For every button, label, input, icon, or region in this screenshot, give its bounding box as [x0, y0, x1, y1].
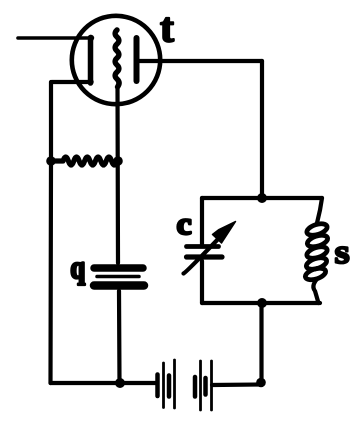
wire: tank right branch upper — [317, 198, 322, 223]
label s — [336, 247, 349, 263]
wire: grid lead down to capacitor q — [115, 87, 120, 263]
wire: tank left branch lower — [200, 261, 204, 303]
battery B2 plate short 2 — [203, 378, 208, 395]
wire: bottom rail right section — [212, 382, 259, 387]
wire: filament bottom lead — [52, 80, 91, 84]
wire: capacitor q bottom lead to ground rail — [117, 291, 122, 383]
wire: tank bottom — [202, 301, 320, 305]
variable capacitor arrow shaft — [184, 236, 222, 274]
label t — [161, 18, 174, 42]
node: tank bottom junction — [257, 298, 267, 308]
capacitor q top plate — [94, 264, 143, 272]
battery B1 plate short 1 — [155, 375, 160, 397]
node: filament bottom junction — [87, 79, 93, 85]
label q — [72, 263, 85, 285]
wire: tank left branch upper — [200, 198, 204, 244]
battery B2 plate short 1 — [193, 377, 198, 397]
node: filament top junction — [88, 35, 94, 41]
wire: tank right branch lower — [313, 279, 318, 303]
node: bottom right corner junction — [256, 378, 266, 388]
variable capacitor c top plate — [187, 244, 219, 249]
node: resistor right junction — [113, 156, 123, 166]
grid element (wavy line inside tube) — [115, 30, 119, 87]
battery B1 plate long 2 — [173, 360, 176, 408]
node: tank top junction — [257, 193, 267, 203]
inductor s coil loops — [304, 222, 329, 282]
tube envelope V1 — [72, 16, 160, 104]
node: resistor left junction — [46, 156, 56, 166]
variable capacitor arrowhead — [213, 222, 236, 244]
variable capacitor c bottom plate — [187, 254, 223, 259]
capacitor q bottom plate — [94, 281, 144, 290]
battery B1 plate long 1 — [162, 363, 165, 408]
wire: right vertical rail upper — [260, 61, 264, 198]
wire: left vertical rail — [48, 82, 53, 383]
capacitor q middle plate — [97, 275, 139, 279]
battery B1 plate short 2 — [167, 376, 172, 397]
wire: right vertical rail lower — [259, 303, 263, 381]
wire: bottom rail left section — [51, 381, 157, 385]
battery B2 plate long 1 — [199, 361, 202, 410]
label c — [178, 219, 191, 234]
wire: filament top lead from left edge — [18, 36, 91, 40]
battery B2 plate long 2 — [210, 361, 213, 410]
wire: tank top — [202, 196, 322, 200]
resistor R (grid leak) — [52, 157, 117, 165]
node: grid rail bottom junction — [115, 378, 125, 388]
plate bar (tube anode element) — [134, 38, 140, 81]
wire: plate lead to right rail — [137, 59, 262, 63]
filament bar (tube cathode element) — [88, 38, 94, 84]
